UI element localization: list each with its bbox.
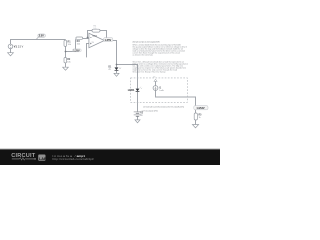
wire	[195, 110, 197, 113]
svg-text:CIRCUIT: CIRCUIT	[11, 153, 35, 159]
node junction dots	[65, 37, 118, 66]
annotation below box	[142, 106, 185, 113]
annotation text block	[133, 40, 189, 73]
wire	[104, 41, 117, 68]
svg-text:is 1% to compute (770): is 1% to compute (770)	[142, 110, 158, 113]
current source I1	[153, 86, 164, 92]
wire	[87, 44, 90, 58]
ground	[8, 53, 14, 56]
LED D2	[128, 87, 142, 92]
footer bar	[0, 149, 220, 165]
svg-text:set V=3.0 with current that re: set V=3.0 with current that resistance t…	[143, 106, 184, 109]
wire	[65, 46, 67, 57]
svg-text:1.953V: 1.953V	[196, 106, 204, 110]
svg-text:LED1: LED1	[128, 88, 135, 92]
logo CircuitLab	[11, 153, 47, 161]
svg-text:Simulate / DC Sweep / Run DC S: Simulate / DC Sweep / Run DC Sweep	[133, 70, 166, 73]
svg-text:http://circuitlab.com/cwb3p3: http://circuitlab.com/cwb3p3	[53, 157, 94, 161]
footer text	[53, 154, 94, 161]
wire	[137, 92, 139, 112]
load net label	[194, 106, 208, 110]
ground	[63, 67, 69, 70]
wire	[156, 90, 196, 105]
net flag label 2.5V	[36, 34, 45, 39]
svg-text:OA1: OA1	[92, 35, 97, 38]
svg-text:as shown in the schematic: as shown in the schematic	[133, 53, 154, 56]
svg-text:2.5 V: 2.5 V	[18, 46, 24, 49]
ground	[135, 120, 140, 123]
resistor R2	[64, 58, 72, 64]
wire	[66, 39, 76, 51]
node junction label	[73, 49, 82, 53]
svg-text:1mA: 1mA	[159, 89, 164, 92]
ground	[192, 125, 198, 128]
resistor R1	[64, 40, 72, 46]
diode D1	[108, 67, 122, 71]
wire	[137, 116, 139, 120]
svg-text:2.5V: 2.5V	[39, 35, 44, 38]
resistor R5 load	[194, 113, 202, 120]
svg-text:1.25V: 1.25V	[73, 49, 80, 52]
wire	[65, 40, 67, 41]
resistor R3	[76, 37, 83, 45]
supply arrow node	[153, 77, 157, 82]
svg-text:A simple example circuit of a: A simple example circuit of a regulated …	[133, 40, 161, 43]
resistor R4 feedback	[92, 26, 100, 33]
op-amp OA1	[89, 33, 105, 47]
wire	[10, 49, 12, 53]
dashed group box	[131, 78, 188, 102]
wire	[83, 38, 89, 40]
wire	[11, 40, 66, 45]
wire	[100, 31, 107, 39]
output net label	[104, 38, 113, 42]
wire	[88, 31, 93, 38]
wire	[155, 81, 157, 85]
voltage source V1	[8, 44, 13, 49]
svg-text:1.25V: 1.25V	[105, 38, 112, 42]
wire	[116, 71, 118, 74]
wire	[65, 63, 67, 67]
svg-text:LAB: LAB	[39, 157, 47, 161]
wire	[195, 120, 197, 125]
svg-text:10k: 10k	[93, 28, 96, 30]
ground	[114, 73, 119, 76]
wire	[117, 65, 138, 89]
label V1 value	[14, 46, 24, 49]
battery V2	[134, 112, 144, 117]
svg-text:ZD: ZD	[108, 69, 111, 71]
